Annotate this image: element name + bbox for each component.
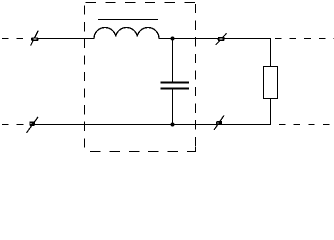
wire: dashed external lead bottom-right	[279, 124, 334, 126]
junction dot at node between C1 and bottom rail	[171, 123, 175, 127]
wire: bottom rail	[35, 124, 271, 126]
dashed enclosure box bottom edge	[90, 151, 196, 153]
port terminal P2 bottom-left: slash	[27, 117, 38, 133]
port terminal P2 bottom-left: dot	[29, 121, 35, 126]
port terminal P3 top-right: circle	[218, 37, 225, 41]
port terminal P3 top-right: slash	[216, 33, 227, 45]
wire: dashed external lead top-right	[275, 38, 334, 40]
wire: resistor R1 top lead	[270, 39, 272, 67]
dashed enclosure box right edge	[195, 4, 197, 152]
dashed enclosure box bottom-right corner stub	[195, 147, 197, 152]
dashed enclosure box top edge	[86, 2, 196, 4]
wire: capacitor C1 top lead	[172, 39, 174, 82]
wire: top rail from inductor L1 to resistor corner	[159, 38, 271, 40]
capacitor C1 top plate	[161, 82, 190, 84]
port terminal P4 bottom-right: slash	[214, 116, 224, 131]
wire: dashed external lead top-left	[2, 38, 32, 40]
capacitor C1 bottom plate	[161, 88, 190, 90]
dashed enclosure box left edge	[84, 6, 86, 151]
resistor R1 body	[264, 67, 278, 99]
wire: resistor R1 bottom lead	[270, 99, 272, 125]
wire: top rail from port P1 to inductor L1	[38, 38, 95, 40]
wire: dashed external lead bottom-left	[2, 124, 28, 126]
port terminal P1 top-left: slash	[31, 31, 39, 46]
junction dot at node between L1, C1 (top)	[171, 37, 175, 41]
wire: capacitor C1 bottom lead	[172, 90, 174, 125]
port terminal P1 top-left: circle	[31, 37, 38, 41]
inductor L1 winding (three arcs)	[94, 28, 159, 39]
inductor L1 core bar	[98, 19, 158, 21]
port terminal P4 bottom-right: dot	[216, 121, 222, 125]
